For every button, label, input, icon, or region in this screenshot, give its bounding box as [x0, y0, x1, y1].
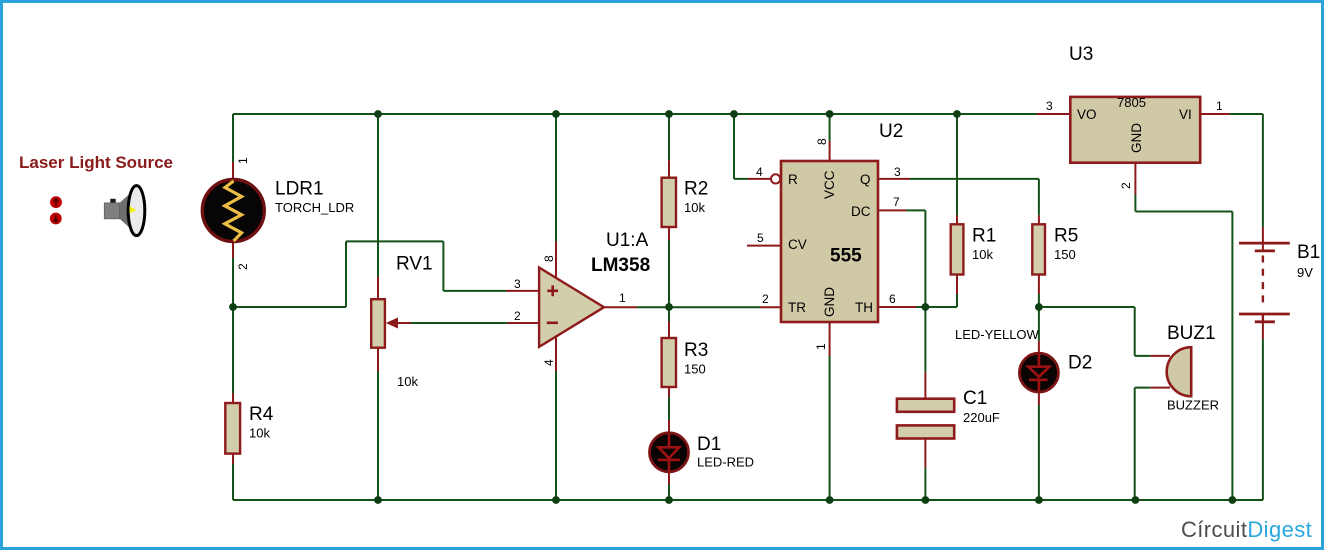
svg-text:D2: D2	[1068, 353, 1092, 374]
wire D1 to ground	[668, 473, 670, 501]
svg-text:10k: 10k	[397, 374, 418, 389]
svg-text:U2: U2	[879, 121, 903, 142]
svg-text:3: 3	[514, 277, 521, 291]
svg-text:R: R	[788, 172, 798, 187]
pin number 4 555	[756, 165, 763, 179]
wire C1 branch	[924, 307, 926, 500]
svg-text:LED-RED: LED-RED	[697, 455, 754, 470]
svg-text:150: 150	[1054, 247, 1076, 262]
value BUZZER	[1167, 398, 1219, 413]
wire R4 branch	[232, 307, 234, 500]
value LED-RED	[697, 455, 754, 470]
svg-text:R5: R5	[1054, 226, 1078, 247]
LED D2	[1019, 353, 1058, 392]
op-amp pin 8 wire	[555, 114, 557, 278]
wire 555 DC pin 7	[878, 210, 925, 307]
svg-text:2: 2	[762, 292, 769, 306]
LED D1	[650, 433, 689, 472]
label R1	[972, 226, 996, 247]
pin number 2 555	[762, 292, 769, 306]
svg-text:Laser Light Source: Laser Light Source	[19, 153, 173, 172]
wire buzzer branch	[1039, 307, 1170, 500]
svg-text:1: 1	[236, 157, 250, 164]
pin number 1 7805	[1216, 99, 1223, 113]
svg-text:C1: C1	[963, 388, 987, 409]
svg-text:TORCH_LDR: TORCH_LDR	[275, 200, 354, 215]
laser light source caption	[19, 153, 173, 172]
value LM358	[591, 255, 650, 276]
svg-text:B1: B1	[1297, 242, 1320, 263]
label U3	[1069, 44, 1093, 65]
pin number 7 555	[893, 195, 900, 209]
wire top rail	[233, 113, 1037, 115]
svg-text:5: 5	[757, 231, 764, 245]
svg-text:VI: VI	[1179, 107, 1192, 122]
svg-text:BUZZER: BUZZER	[1167, 398, 1219, 413]
svg-text:3: 3	[894, 165, 901, 179]
svg-text:R4: R4	[249, 404, 274, 425]
wire 555 GND pin 1	[829, 322, 831, 500]
red indicator dot up	[50, 196, 62, 208]
svg-text:2: 2	[514, 309, 521, 323]
wire 555 VCC pin 8	[829, 114, 831, 161]
label R2	[684, 179, 708, 200]
CircuitDigest logo	[1181, 517, 1312, 542]
pin number 1 op-amp	[619, 291, 626, 305]
resistor R1	[951, 224, 964, 274]
value R2 10k	[684, 200, 705, 215]
label U2	[879, 121, 903, 142]
svg-text:TR: TR	[788, 300, 806, 315]
resistor R3	[662, 338, 676, 387]
svg-text:GND: GND	[1129, 123, 1144, 153]
555 CV pin 5 stub	[747, 245, 781, 247]
value R4 10k	[249, 426, 270, 441]
wire 555 reset pin 4	[734, 114, 780, 183]
resistor R5	[1032, 224, 1045, 274]
label R3	[684, 340, 708, 361]
wire RV1 wiper to op-amp inverting input	[389, 322, 539, 324]
label C1	[963, 388, 987, 409]
pin number 2 LDR	[236, 263, 250, 270]
pin number 3 op-amp	[514, 277, 521, 291]
label U1:A	[606, 230, 649, 251]
junction dots mid row	[229, 303, 1043, 311]
svg-text:8: 8	[815, 138, 829, 145]
svg-text:LED-YELLOW: LED-YELLOW	[955, 327, 1040, 342]
red indicator dot down	[50, 213, 62, 225]
value R1 10k	[972, 247, 993, 262]
value B1 9V	[1297, 265, 1313, 280]
wire R1 branch from VCC rail	[956, 114, 958, 224]
wire bottom rail	[233, 499, 1263, 501]
wire 555 TH pin 6 to R1	[878, 275, 957, 308]
svg-text:LM358: LM358	[591, 255, 650, 276]
resistor R2	[662, 178, 676, 227]
label B1	[1297, 242, 1320, 263]
wire 7805 VO pin 3	[1037, 113, 1070, 115]
svg-text:LDR1: LDR1	[275, 179, 324, 200]
wire LDR bottom branch	[232, 243, 234, 307]
svg-text:220uF: 220uF	[963, 410, 1000, 425]
value R5 150	[1054, 247, 1076, 262]
wire RV1 bottom to ground rail	[377, 348, 379, 500]
pin number 4 op-amp	[542, 359, 556, 366]
value R3 150	[684, 362, 706, 377]
svg-text:2: 2	[1119, 182, 1133, 189]
pin number 2 op-amp	[514, 309, 521, 323]
wire LDR to op-amp noninverting input	[233, 241, 539, 307]
svg-text:D1: D1	[697, 434, 721, 455]
value RV1 10k	[397, 374, 418, 389]
555 timer U2	[781, 161, 878, 322]
svg-text:10k: 10k	[972, 247, 993, 262]
op-amp output wire pin 1	[604, 306, 781, 308]
resistor R4	[225, 403, 240, 454]
wire RV1 branch from top rail	[377, 114, 379, 299]
svg-text:VCC: VCC	[822, 170, 837, 199]
wire D2 branch	[1038, 307, 1040, 500]
svg-text:9V: 9V	[1297, 265, 1313, 280]
svg-text:7805: 7805	[1117, 95, 1146, 110]
svg-text:BUZ1: BUZ1	[1167, 323, 1216, 344]
svg-text:R1: R1	[972, 226, 996, 247]
label D1	[697, 434, 721, 455]
svg-text:RV1: RV1	[396, 254, 433, 275]
pin number 3 7805	[1046, 99, 1053, 113]
svg-text:10k: 10k	[249, 426, 270, 441]
svg-text:8: 8	[542, 255, 556, 262]
buzzer BUZ1	[1167, 347, 1192, 396]
svg-text:7: 7	[893, 195, 900, 209]
label D2	[1068, 353, 1092, 374]
junction dots top rail	[374, 110, 961, 118]
wire R3 branch	[668, 307, 670, 432]
wire 7805 VI pin 1 to battery	[1200, 114, 1263, 227]
svg-text:6: 6	[889, 292, 896, 306]
LDR1 photoresistor	[202, 180, 264, 242]
svg-text:150: 150	[684, 362, 706, 377]
svg-text:3: 3	[1046, 99, 1053, 113]
pin number 1 555	[814, 343, 828, 350]
svg-text:2: 2	[236, 263, 250, 270]
pin number 5 555	[757, 231, 764, 245]
svg-text:VO: VO	[1077, 107, 1097, 122]
pin number 8 op-amp	[542, 255, 556, 262]
label LDR1	[275, 179, 324, 200]
svg-text:1: 1	[814, 343, 828, 350]
wire battery to ground rail	[1262, 339, 1264, 500]
svg-text:U3: U3	[1069, 44, 1093, 65]
pin number 2 7805	[1119, 182, 1133, 189]
battery B1	[1239, 227, 1290, 339]
svg-text:4: 4	[756, 165, 763, 179]
pin number 3 555	[894, 165, 901, 179]
value LED-YELLOW	[955, 327, 1040, 342]
svg-text:CV: CV	[788, 237, 807, 252]
svg-text:U1:A: U1:A	[606, 230, 649, 251]
torch icon	[104, 186, 145, 236]
label R5	[1054, 226, 1078, 247]
svg-text:555: 555	[830, 246, 862, 267]
voltage regulator U3 7805	[1070, 95, 1200, 163]
value TORCH_LDR	[275, 200, 354, 215]
wire R2 branch	[668, 114, 670, 307]
svg-text:R2: R2	[684, 179, 708, 200]
pin number 1 LDR	[236, 157, 250, 164]
svg-text:DC: DC	[851, 204, 871, 219]
svg-text:R3: R3	[684, 340, 708, 361]
svg-text:1: 1	[619, 291, 626, 305]
svg-text:GND: GND	[822, 287, 837, 317]
op-amp pin 4 wire	[555, 337, 557, 501]
pin number 6 555	[889, 292, 896, 306]
svg-text:1: 1	[1216, 99, 1223, 113]
junction dots bottom rail	[374, 496, 1236, 504]
label BUZ1	[1167, 323, 1216, 344]
label R4	[249, 404, 274, 425]
label RV1	[396, 254, 433, 275]
value C1 220uF	[963, 410, 1000, 425]
op-amp U1:A	[539, 268, 604, 347]
svg-text:Q: Q	[860, 172, 871, 187]
wire 555 Q output pin 3 to R5	[878, 179, 1039, 216]
svg-text:CírcuitDigest: CírcuitDigest	[1181, 517, 1312, 542]
wire R5 pins	[1038, 215, 1040, 307]
wire LDR top branch	[232, 114, 234, 180]
svg-text:TH: TH	[855, 300, 873, 315]
pin number 8 555	[815, 138, 829, 145]
wire 7805 GND pin 2 to ground	[1135, 163, 1232, 500]
potentiometer RV1	[371, 299, 398, 348]
svg-text:4: 4	[542, 359, 556, 366]
svg-text:10k: 10k	[684, 200, 705, 215]
capacitor C1	[897, 399, 954, 439]
